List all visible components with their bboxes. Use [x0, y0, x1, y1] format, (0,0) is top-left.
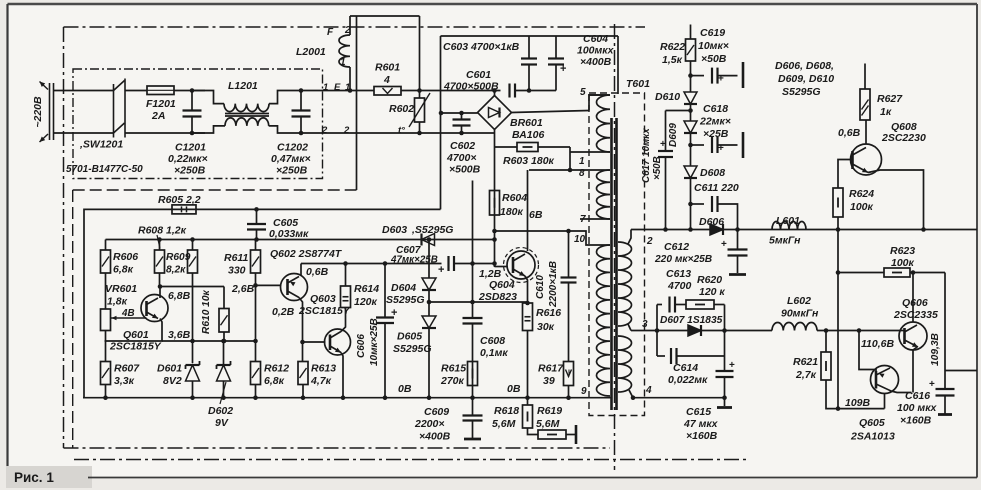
- svg-text:30к: 30к: [537, 321, 555, 333]
- svg-text:2SC1815Y: 2SC1815Y: [109, 341, 162, 353]
- svg-text:330: 330: [228, 265, 246, 277]
- svg-text:S5295G: S5295G: [393, 343, 432, 355]
- svg-text:R611: R611: [224, 252, 248, 264]
- svg-text:Q606: Q606: [902, 297, 928, 309]
- svg-text:D606, D608,: D606, D608,: [775, 60, 834, 72]
- svg-text:R618: R618: [494, 405, 519, 417]
- svg-text:R609: R609: [166, 252, 191, 263]
- svg-text:×160В: ×160В: [686, 430, 718, 442]
- svg-text:C602: C602: [450, 140, 475, 152]
- svg-text:90мкГн: 90мкГн: [781, 308, 819, 320]
- svg-text:F: F: [327, 27, 334, 38]
- svg-text:C618: C618: [703, 103, 728, 115]
- svg-text:100мкх: 100мкх: [577, 45, 615, 57]
- svg-text:C604: C604: [583, 33, 608, 45]
- svg-text:4700: 4700: [667, 280, 692, 292]
- svg-text:Q604: Q604: [489, 279, 515, 291]
- svg-text:S5295G: S5295G: [782, 86, 821, 98]
- svg-text:180к: 180к: [500, 206, 524, 218]
- svg-text:5: 5: [580, 87, 586, 98]
- svg-text:8,2к: 8,2к: [166, 265, 186, 276]
- svg-text:2,7к: 2,7к: [795, 369, 817, 381]
- svg-text:D610: D610: [655, 91, 680, 103]
- svg-text:~220В: ~220В: [32, 96, 44, 128]
- svg-text:39: 39: [543, 375, 555, 387]
- svg-text:L601: L601: [776, 215, 800, 227]
- svg-text:R608 1,2к: R608 1,2к: [138, 225, 187, 237]
- svg-text:0,033мк: 0,033мк: [269, 228, 309, 240]
- svg-text:2SC2335: 2SC2335: [893, 309, 938, 321]
- svg-text:×160В: ×160В: [900, 415, 932, 427]
- svg-text:D607 1S1835: D607 1S1835: [660, 315, 723, 326]
- svg-text:R603 180к: R603 180к: [503, 155, 555, 167]
- svg-text:С617 10мкх: С617 10мкх: [641, 128, 652, 183]
- svg-text:L1201: L1201: [228, 80, 258, 92]
- svg-text:R616: R616: [536, 307, 561, 319]
- svg-text:+: +: [560, 63, 566, 75]
- svg-text:×50В: ×50В: [652, 156, 663, 180]
- svg-text:3: 3: [642, 319, 648, 330]
- svg-text:R627: R627: [877, 93, 903, 105]
- svg-text:+: +: [729, 360, 735, 371]
- svg-text:3,6В: 3,6В: [168, 329, 191, 341]
- svg-text:220 мк×25В: 220 мк×25В: [654, 254, 712, 265]
- svg-text:270к: 270к: [440, 375, 465, 387]
- svg-text:0,6В: 0,6В: [306, 266, 329, 278]
- svg-text:ВА106: ВА106: [512, 129, 544, 141]
- svg-text:R617: R617: [538, 363, 564, 375]
- svg-text:C610: C610: [535, 275, 546, 299]
- svg-text:Рис. 1: Рис. 1: [14, 470, 54, 485]
- svg-text:4В: 4В: [121, 308, 135, 319]
- svg-text:D602: D602: [208, 405, 233, 417]
- svg-text:2200×1кВ: 2200×1кВ: [548, 261, 559, 308]
- svg-text:×25В: ×25В: [703, 128, 729, 140]
- svg-text:1: 1: [340, 57, 346, 68]
- svg-text:9V: 9V: [215, 417, 229, 429]
- svg-text:S5295G: S5295G: [386, 294, 425, 306]
- svg-text:Q603: Q603: [310, 293, 336, 305]
- svg-text:0,022мк: 0,022мк: [668, 374, 708, 386]
- svg-text:1: 1: [579, 156, 585, 167]
- svg-text:R615: R615: [441, 363, 466, 375]
- svg-text:R610 10к: R610 10к: [201, 289, 212, 334]
- svg-text:C603 4700×1кВ: C603 4700×1кВ: [443, 41, 520, 53]
- svg-text:+: +: [721, 239, 727, 250]
- svg-text:R602: R602: [389, 103, 414, 115]
- svg-text:R613: R613: [311, 363, 336, 375]
- svg-text:1,8к: 1,8к: [107, 296, 128, 308]
- svg-text:7: 7: [580, 214, 586, 225]
- svg-text:×50В: ×50В: [701, 53, 727, 65]
- svg-text:4: 4: [645, 385, 652, 396]
- svg-text:10мк×25В: 10мк×25В: [369, 318, 380, 366]
- svg-text:2: 2: [321, 125, 328, 136]
- svg-text:,S5295G: ,S5295G: [411, 224, 453, 236]
- svg-text:R604: R604: [502, 192, 527, 204]
- svg-text:+: +: [718, 143, 724, 154]
- svg-text:D601: D601: [157, 363, 182, 375]
- svg-text:R605: R605: [158, 194, 183, 206]
- svg-text:100к: 100к: [850, 201, 874, 213]
- svg-text:R614: R614: [354, 283, 379, 295]
- svg-text:,SW1201: ,SW1201: [79, 139, 123, 151]
- svg-text:VR601: VR601: [105, 283, 137, 295]
- svg-text:Q601: Q601: [123, 329, 149, 341]
- svg-text:120к: 120к: [354, 296, 378, 308]
- svg-text:47мк×25В: 47мк×25В: [390, 255, 438, 266]
- svg-text:R621: R621: [793, 356, 818, 368]
- svg-text:5мкГн: 5мкГн: [769, 235, 801, 247]
- svg-text:R623: R623: [890, 245, 915, 257]
- svg-text:6В: 6В: [529, 209, 543, 221]
- svg-text:8: 8: [579, 168, 585, 179]
- svg-text:120 к: 120 к: [699, 286, 725, 298]
- svg-text:С614: С614: [673, 362, 698, 374]
- svg-text:1,5к: 1,5к: [662, 54, 683, 66]
- svg-text:+: +: [660, 139, 666, 150]
- svg-text:0,2В: 0,2В: [272, 306, 295, 318]
- svg-text:5701-B1477C-50: 5701-B1477C-50: [66, 164, 143, 175]
- svg-text:C606: C606: [356, 334, 367, 358]
- svg-text:2: 2: [646, 236, 653, 247]
- svg-text:0,22мк×: 0,22мк×: [168, 153, 208, 165]
- svg-text:С615: С615: [686, 406, 711, 418]
- svg-text:+: +: [391, 307, 397, 319]
- svg-text:C601: C601: [466, 69, 491, 81]
- svg-text:+: +: [718, 74, 724, 85]
- svg-text:0В: 0В: [398, 383, 412, 395]
- svg-text:×400В: ×400В: [580, 56, 612, 68]
- svg-text:4: 4: [383, 74, 390, 86]
- svg-text:2: 2: [344, 25, 351, 36]
- svg-text:D606: D606: [699, 216, 724, 228]
- svg-text:C1202: C1202: [277, 142, 308, 154]
- svg-text:6,8В: 6,8В: [168, 290, 191, 302]
- svg-text:T601: T601: [626, 78, 650, 90]
- svg-text:F1201: F1201: [146, 98, 176, 110]
- svg-text:С612: С612: [664, 241, 689, 253]
- svg-text:R601: R601: [375, 62, 400, 74]
- svg-text:110,6В: 110,6В: [861, 338, 894, 350]
- svg-text:3,3к: 3,3к: [114, 375, 135, 387]
- svg-text:2SC2230: 2SC2230: [881, 132, 926, 144]
- svg-text:0,6В: 0,6В: [838, 127, 861, 139]
- svg-text:0,1мк: 0,1мк: [480, 347, 508, 359]
- svg-text:D608: D608: [700, 167, 725, 179]
- svg-text:C611 220: C611 220: [694, 182, 739, 194]
- svg-text:BR601: BR601: [510, 117, 543, 129]
- svg-text:10: 10: [574, 234, 586, 245]
- svg-text:D604: D604: [391, 282, 416, 294]
- svg-text:+: +: [929, 379, 935, 390]
- svg-text:6,8к: 6,8к: [113, 264, 134, 276]
- svg-text:R622: R622: [660, 41, 685, 53]
- svg-text:C616: C616: [905, 390, 930, 402]
- svg-text:2SD823: 2SD823: [478, 291, 517, 303]
- svg-text:C608: C608: [480, 335, 505, 347]
- svg-text:109,3В: 109,3В: [930, 333, 941, 366]
- svg-text:R612: R612: [264, 363, 289, 375]
- svg-text:2,2: 2,2: [185, 194, 201, 206]
- svg-text:5,6М: 5,6М: [536, 418, 560, 430]
- svg-text:R619: R619: [537, 405, 562, 417]
- svg-text:2200×: 2200×: [414, 418, 445, 430]
- svg-text:+: +: [438, 264, 444, 276]
- svg-text:D609, D610: D609, D610: [778, 73, 834, 85]
- svg-text:4700×500В: 4700×500В: [443, 81, 499, 93]
- svg-text:D609: D609: [668, 123, 679, 147]
- svg-text:5,6М: 5,6М: [492, 418, 516, 430]
- svg-text:0В: 0В: [507, 383, 521, 395]
- svg-text:10мк×: 10мк×: [698, 40, 729, 52]
- svg-text:4,7к: 4,7к: [310, 375, 332, 387]
- svg-text:R606: R606: [113, 251, 138, 263]
- svg-text:22мк×: 22мк×: [699, 116, 731, 128]
- svg-text:2SA1013: 2SA1013: [850, 431, 895, 443]
- svg-text:D605: D605: [397, 331, 422, 343]
- svg-text:×400В: ×400В: [419, 431, 451, 443]
- svg-text:2: 2: [343, 125, 350, 136]
- svg-text:6,8к: 6,8к: [264, 375, 285, 387]
- svg-text:Q602 2S8774T: Q602 2S8774T: [270, 248, 343, 260]
- svg-text:1к: 1к: [880, 106, 892, 118]
- svg-text:×250В: ×250В: [174, 165, 206, 177]
- svg-text:R607: R607: [114, 363, 140, 375]
- svg-text:C1201: C1201: [175, 142, 206, 154]
- svg-text:Q605: Q605: [859, 417, 885, 429]
- svg-text:D603: D603: [382, 224, 407, 236]
- svg-text:0,47мк×: 0,47мк×: [271, 153, 311, 165]
- svg-text:×250В: ×250В: [276, 165, 308, 177]
- svg-text:C609: C609: [424, 406, 449, 418]
- svg-text:R620: R620: [697, 274, 722, 286]
- svg-text:L2001: L2001: [296, 46, 326, 58]
- svg-text:L602: L602: [787, 295, 811, 307]
- svg-text:109В: 109В: [845, 397, 871, 409]
- svg-text:4700×: 4700×: [446, 152, 477, 164]
- svg-text:R624: R624: [849, 188, 874, 200]
- svg-text:9: 9: [581, 386, 587, 397]
- svg-text:2,6В: 2,6В: [231, 283, 255, 295]
- svg-text:С613: С613: [666, 268, 691, 280]
- svg-text:8V2: 8V2: [163, 375, 182, 387]
- svg-text:47 мкх: 47 мкх: [683, 418, 719, 430]
- svg-text:t°: t°: [398, 125, 405, 136]
- svg-text:×500В: ×500В: [449, 164, 481, 176]
- svg-text:2А: 2А: [151, 110, 165, 122]
- svg-text:100 мкх: 100 мкх: [897, 402, 938, 414]
- svg-text:100к: 100к: [891, 257, 915, 269]
- svg-text:C619: C619: [700, 27, 725, 39]
